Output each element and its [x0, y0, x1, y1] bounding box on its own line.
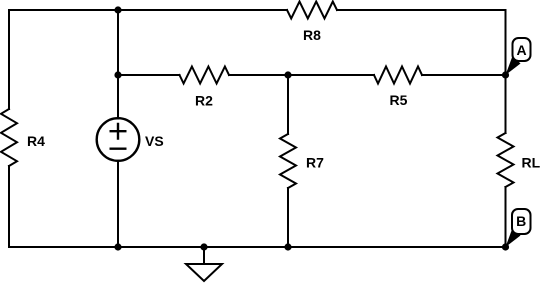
svg-text:RL: RL	[522, 155, 540, 171]
resistor R7	[280, 134, 296, 188]
wire R7 branch bottom	[287, 188, 289, 247]
node B junction dot (505.5,247)	[502, 243, 509, 250]
wire VS stem top	[117, 75, 119, 119]
wire bottom rail	[9, 246, 506, 248]
wire RL branch top (node A to RL)	[505, 75, 507, 133]
svg-text:A: A	[516, 42, 526, 58]
VS minus sign	[111, 147, 126, 149]
callout B tail	[506, 228, 521, 247]
voltage source VS circle	[97, 118, 140, 161]
resistor R4	[1, 109, 17, 166]
wire R7 branch top	[287, 75, 289, 134]
svg-text:R7: R7	[306, 155, 324, 171]
junction dot R7 top (288,75)	[284, 71, 291, 78]
wire R8 right to top-right corner down to node A	[337, 10, 506, 75]
node A junction dot (505.5,75)	[502, 71, 509, 78]
wire middle rail segment 2 (R2 to R7 junction)	[229, 74, 288, 76]
resistor R5	[374, 67, 422, 84]
svg-text:B: B	[516, 213, 526, 229]
resistor R2	[180, 67, 230, 84]
wire VS stem bottom	[117, 161, 119, 247]
resistor RL	[498, 133, 514, 187]
junction dot ground (204,247)	[200, 243, 207, 250]
VS plus sign	[111, 124, 126, 139]
svg-text:R4: R4	[27, 133, 45, 149]
callout A tail	[506, 56, 521, 75]
resistor R8	[287, 2, 337, 19]
ground triangle	[186, 264, 222, 281]
wire left branch bottom (R4 to bottom rail)	[8, 166, 10, 247]
junction dot R7 bottom (288,247)	[284, 243, 291, 250]
ground stem	[203, 247, 205, 264]
svg-text:R5: R5	[390, 92, 408, 108]
wire left branch top (to R4)	[8, 10, 10, 109]
callout B box	[512, 209, 531, 234]
wire middle rail segment 1 (VS junction to R2)	[118, 74, 180, 76]
wire middle rail segment 3 (R7 junction to R5)	[288, 74, 374, 76]
wire middle rail segment 4 (R5 to node A)	[422, 74, 506, 76]
junction dot VS bottom (118,247)	[114, 243, 121, 250]
wire VS branch upper (top rail to middle rail)	[117, 10, 119, 75]
callout A box	[513, 38, 531, 61]
junction dot top (118,10)	[114, 6, 121, 13]
wire RL branch bottom (RL to node B)	[505, 187, 507, 247]
svg-text:R8: R8	[303, 27, 321, 43]
svg-text:VS: VS	[145, 133, 164, 149]
wire top rail (from R4 top to R8 left)	[9, 9, 287, 11]
junction dot VS/middle rail (118,75)	[114, 71, 121, 78]
svg-text:R2: R2	[195, 93, 213, 109]
